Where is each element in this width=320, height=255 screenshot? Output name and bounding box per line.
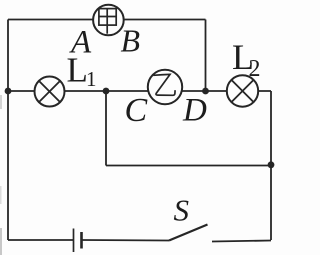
node: junction dot D (top-right vertical / middle wire) bbox=[202, 88, 209, 95]
svg-text:C: C bbox=[125, 92, 148, 129]
wire: left vertical bbox=[7, 20, 9, 241]
wire: bottom left segment to battery bbox=[8, 239, 74, 241]
meter U1 (jia) character glyph bbox=[99, 9, 116, 34]
wire: inner lower horizontal bbox=[106, 165, 271, 167]
scan artifact: left edge smudges bbox=[0, 228, 2, 255]
svg-text:S: S bbox=[174, 193, 190, 228]
svg-text:2: 2 bbox=[249, 56, 261, 82]
battery BT1 long plate bbox=[73, 229, 75, 253]
meter U2 (yi) character glyph bbox=[153, 74, 175, 95]
wire: inner drop from middle wire bbox=[105, 91, 107, 166]
battery BT1 short plate bbox=[80, 232, 83, 249]
wire: top-right vertical (node B side down to D node) bbox=[205, 20, 207, 92]
svg-text:B: B bbox=[121, 23, 141, 59]
svg-text:1: 1 bbox=[86, 67, 97, 91]
meter U1 (jia) circle bbox=[93, 5, 124, 36]
lamp L1 bbox=[35, 77, 65, 107]
node: junction dot right (inner lower wire / right vertical) bbox=[268, 161, 275, 168]
svg-text:D: D bbox=[182, 93, 207, 129]
wire: switch right segment bbox=[212, 241, 271, 242]
wire: middle horizontal bbox=[8, 90, 271, 92]
wire: top horizontal bbox=[8, 19, 206, 21]
node: junction dot between L1 and meter (top of inner drop) bbox=[103, 88, 110, 95]
meter U2 (yi) circle bbox=[148, 70, 182, 104]
wire: battery to switch pivot bbox=[82, 239, 170, 242]
lamp L2 bbox=[227, 75, 258, 106]
switch S lever bbox=[169, 225, 208, 241]
node: junction dot left (middle wire / left vertical) bbox=[5, 88, 12, 95]
svg-text:L: L bbox=[67, 51, 88, 90]
wire: right vertical bbox=[270, 91, 272, 240]
